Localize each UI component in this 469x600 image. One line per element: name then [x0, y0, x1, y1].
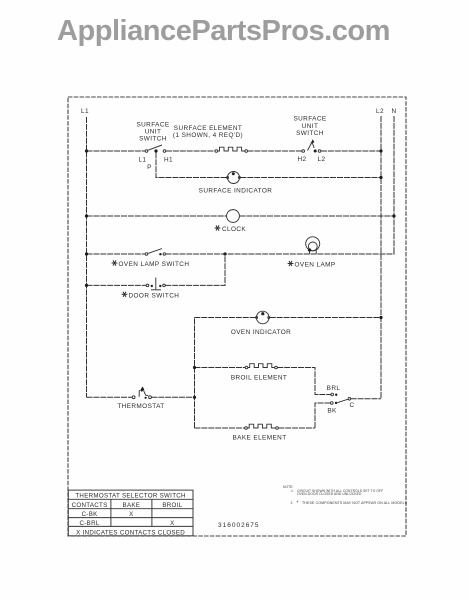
wire: P terminal drop to indicator row — [156, 152, 227, 177]
switch: door switch (plunger type) — [146, 278, 165, 290]
svg-text:H2: H2 — [297, 156, 306, 163]
svg-text:OVEN LAMP SWITCH: OVEN LAMP SWITCH — [119, 261, 190, 268]
svg-text:THESE COMPONENTS MAY NOT APPEA: THESE COMPONENTS MAY NOT APPEAR ON ALL M… — [302, 501, 408, 505]
svg-text:UNIT: UNIT — [145, 129, 162, 136]
wire row5: door switch up to row4 — [165, 254, 225, 285]
wire row5: L1 to door switch — [87, 284, 147, 286]
wire: oven indicator to L2 bus — [270, 317, 381, 319]
svg-text:BROIL: BROIL — [162, 502, 182, 509]
svg-text:2.: 2. — [291, 501, 294, 505]
lamp: oven indicator — [256, 311, 270, 324]
svg-text:SWITCH: SWITCH — [296, 130, 324, 137]
switch: surface unit switch (right), pins H2 / L2 — [297, 139, 325, 163]
svg-text:H1: H1 — [164, 157, 173, 164]
svg-text:*: * — [297, 501, 299, 507]
svg-text:316002675: 316002675 — [218, 522, 260, 529]
svg-text:SURFACE: SURFACE — [293, 116, 326, 123]
svg-text:X INDICATES CONTACTS CLOSED: X INDICATES CONTACTS CLOSED — [76, 529, 185, 536]
table: thermostat selector switch — [68, 490, 193, 536]
svg-text:SURFACE: SURFACE — [136, 122, 169, 129]
wire: thermostat to riser — [151, 396, 194, 398]
wire: thermostat row from L1 — [87, 396, 133, 398]
svg-text:THERMOSTAT: THERMOSTAT — [117, 403, 164, 410]
lamp: surface indicator — [227, 172, 241, 184]
wire: riser to oven indicator row — [195, 318, 257, 429]
wire row1: element to right switch — [248, 150, 303, 152]
svg-text:L2: L2 — [376, 108, 384, 115]
junction ovenind-L2 — [379, 316, 382, 319]
label: *CLOCK — [215, 225, 221, 230]
junction row3-L1 — [85, 214, 88, 217]
svg-text:(1 SHOWN, 4 REQ'D): (1 SHOWN, 4 REQ'D) — [173, 132, 243, 139]
svg-text:BRL: BRL — [327, 385, 341, 392]
schematic outer dashed border (decorative) — [68, 97, 406, 536]
label: *DOOR SWITCH — [122, 292, 180, 300]
junction thermostat-riser — [193, 396, 196, 399]
svg-text:BROIL ELEMENT: BROIL ELEMENT — [231, 375, 287, 382]
switch: surface unit switch (left), pins L1 / P / H1 — [139, 145, 174, 171]
junction broil-riser — [193, 366, 196, 369]
svg-text:L2: L2 — [318, 156, 326, 163]
wire: broil row — [195, 367, 246, 369]
junction row3-N — [392, 214, 395, 217]
svg-text:DOOR SWITCH: DOOR SWITCH — [129, 292, 180, 299]
clock — [227, 210, 240, 223]
lamp: oven lamp — [306, 237, 320, 254]
resistor: surface element — [215, 147, 248, 152]
svg-text:BAKE: BAKE — [123, 502, 141, 509]
svg-text:X: X — [129, 511, 134, 518]
svg-text:OVEN INDICATOR: OVEN INDICATOR — [231, 329, 291, 336]
junction row4 door riser — [223, 252, 226, 255]
label: SURFACE ELEMENT (1 SHOWN, 4 REQ'D) — [173, 125, 243, 139]
svg-text:SWITCH: SWITCH — [139, 136, 167, 143]
wire: broil to BRL contact — [277, 368, 331, 395]
wire row4: switch to N corner (crosses L2) — [166, 253, 394, 254]
svg-text:SURFACE INDICATOR: SURFACE INDICATOR — [199, 188, 273, 195]
resistor: broil element — [245, 364, 277, 369]
label: SURFACE UNIT SWITCH (right) — [293, 116, 326, 138]
wire: bake to BK contact — [315, 403, 330, 428]
svg-text:OVEN LAMP: OVEN LAMP — [295, 262, 336, 269]
svg-text:SURFACE ELEMENT: SURFACE ELEMENT — [174, 125, 242, 132]
wire row1: switch L2 to L2 bus — [321, 150, 381, 152]
wire L2 vertical bus — [380, 116, 382, 399]
svg-text:C: C — [349, 402, 354, 409]
junction row2-L2 — [379, 176, 382, 179]
svg-text:BK: BK — [327, 408, 337, 415]
svg-text:L1: L1 — [81, 108, 89, 115]
wire row1: L1 to surface unit switch — [87, 150, 146, 152]
svg-text:THERMOSTAT SELECTOR SWITCH: THERMOSTAT SELECTOR SWITCH — [75, 493, 185, 500]
svg-text:C-BK: C-BK — [82, 511, 99, 518]
wire L1 vertical bus — [86, 117, 88, 397]
junction row1-L1 — [85, 149, 88, 152]
svg-text:AppliancePartsPros.com: AppliancePartsPros.com — [57, 15, 390, 47]
wire row3: clock to N bus — [239, 215, 394, 217]
label: *OVEN LAMP SWITCH — [112, 260, 190, 268]
label: SURFACE UNIT SWITCH (left) — [136, 122, 169, 143]
svg-text:N: N — [391, 108, 396, 115]
svg-text:P: P — [147, 164, 152, 171]
switch: oven lamp switch — [145, 249, 165, 256]
svg-text:X: X — [170, 520, 175, 527]
svg-text:C-BRL: C-BRL — [80, 520, 100, 527]
wire: indicator to L2 bus — [240, 177, 381, 179]
junction row1-L2 — [379, 149, 382, 152]
junction row4-L1 — [85, 252, 88, 255]
wire: bake element to right riser — [278, 427, 315, 429]
svg-text:CONTACTS: CONTACTS — [72, 502, 108, 509]
wire N vertical bus — [393, 116, 395, 254]
wire row3: L1 to clock — [87, 215, 227, 217]
resistor: bake element — [245, 424, 279, 429]
switch: oven selector BRL/BK/C — [327, 385, 355, 415]
svg-text:UNIT: UNIT — [302, 123, 319, 130]
wire row1: switch H1 to surface element — [166, 150, 215, 152]
svg-text:L1: L1 — [139, 157, 147, 164]
label: *OVEN LAMP — [288, 261, 336, 269]
svg-text:BAKE ELEMENT: BAKE ELEMENT — [232, 435, 286, 442]
wire: bake row — [195, 427, 245, 429]
notes — [283, 485, 408, 507]
svg-text:CLOCK: CLOCK — [222, 226, 246, 233]
wire row4: L1 to oven lamp switch — [87, 253, 146, 255]
svg-text:OVEN DOOR CLOSED AND UNLOCKED: OVEN DOOR CLOSED AND UNLOCKED — [297, 492, 362, 496]
thermostat — [132, 387, 151, 399]
wire: selector C to L2 bus — [351, 398, 381, 400]
svg-text:1.: 1. — [291, 489, 294, 493]
junction row5-L1 — [85, 284, 88, 287]
